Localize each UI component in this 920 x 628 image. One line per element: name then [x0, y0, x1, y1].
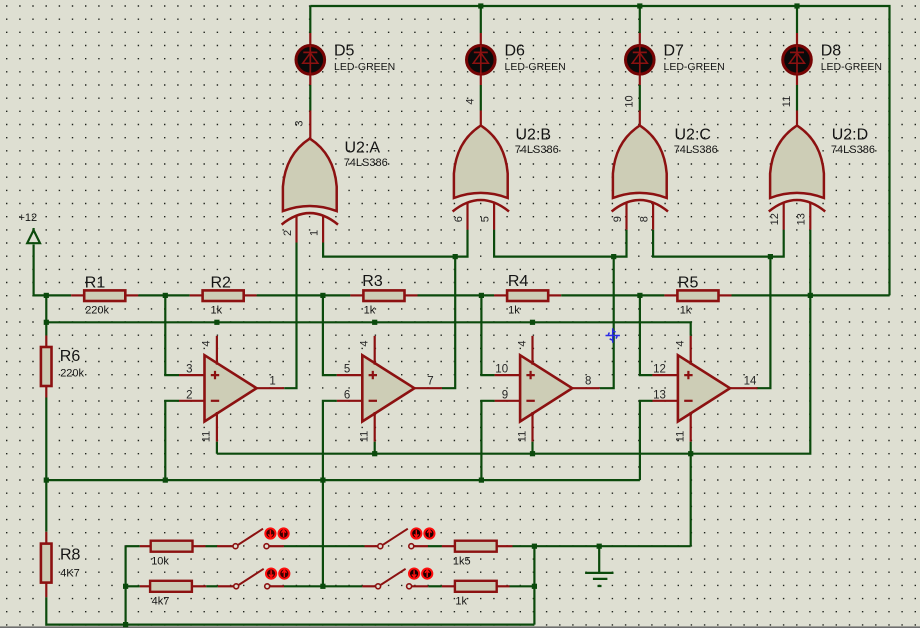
U2:A label — [344, 139, 388, 169]
pin number 9 — [502, 389, 508, 401]
U2:C input stub left (pin 9) — [625, 202, 627, 230]
R4 labels — [508, 273, 529, 317]
pin number 4 — [675, 340, 687, 346]
svg-text:2: 2 — [186, 389, 192, 401]
wire op2 output up — [442, 257, 455, 389]
resistor R1 left stub — [71, 294, 84, 296]
wire U2:D pin13 down — [809, 230, 811, 296]
pin number 5 — [479, 216, 491, 222]
svg-text:R1: R1 — [85, 275, 106, 292]
switch 4 right stub — [412, 585, 429, 587]
pin number 10 (output of U2:C) — [624, 95, 636, 107]
D8 anode stub — [796, 75, 798, 85]
resistor 4k7 left stub — [140, 585, 150, 587]
op1 output stub — [257, 387, 285, 389]
resistor 1k left stub — [442, 585, 455, 587]
svg-text:1: 1 — [308, 230, 320, 236]
junction R2/R3 tap — [320, 293, 325, 298]
resistor 10k left stub — [140, 545, 151, 547]
svg-text:D5: D5 — [334, 42, 355, 59]
svg-text:D8: D8 — [821, 42, 842, 59]
svg-text:U2:D: U2:D — [832, 126, 868, 143]
U2:D input stub right (pin 13) — [809, 202, 811, 230]
svg-text:11: 11 — [781, 96, 793, 107]
junction row2 / op2 column — [320, 584, 325, 589]
wire V+ rail (op-amp pin 4 supply) — [46, 322, 690, 336]
1k label — [455, 596, 467, 608]
wire op4 output up — [756, 257, 770, 389]
D5 cathode stub — [309, 33, 311, 44]
bottom window strip — [0, 626, 920, 628]
wire center column to switch4 — [323, 585, 363, 587]
wire 1k5 to ground rail — [513, 545, 691, 547]
resistor R4 right stub — [548, 294, 561, 296]
wire 4k7 to switch 3 — [206, 585, 218, 587]
switch SW3 (row2 left) — [234, 569, 290, 589]
svg-text:4: 4 — [465, 98, 477, 104]
svg-text:1k: 1k — [680, 305, 692, 317]
wire R1 to R2 — [138, 294, 189, 296]
pin number 4 (output of U2:B) — [465, 98, 477, 104]
svg-text:74LS386: 74LS386 — [344, 157, 388, 169]
pin number 4 — [516, 340, 528, 346]
pin number 1 — [308, 230, 320, 236]
wire op1 - input to feedback line — [165, 401, 179, 480]
svg-text:2: 2 — [282, 230, 294, 236]
wire D7 to gate — [639, 85, 641, 111]
switch 2 left stub — [365, 545, 378, 547]
svg-text:5: 5 — [479, 216, 491, 222]
pin number 6 — [344, 389, 350, 401]
pin number 9 — [612, 216, 624, 222]
op-amp 3 (comparator, output pin 8) — [520, 355, 572, 421]
resistor 4k7 — [150, 581, 192, 592]
resistor R8 top stub — [45, 532, 47, 544]
pin number 2 — [186, 389, 192, 401]
svg-text:12: 12 — [769, 213, 781, 225]
D6 anode stub — [480, 75, 482, 85]
svg-text:11: 11 — [359, 431, 371, 442]
junction top rail / D7 — [637, 3, 642, 8]
svg-text:R4: R4 — [508, 273, 529, 290]
svg-text:4: 4 — [516, 340, 528, 346]
wire switch2 to 1k5 — [428, 545, 442, 547]
op2 - input stub — [337, 400, 363, 402]
resistor R4 left stub — [494, 294, 507, 296]
junction rail / op4 pin11 / ground drop — [688, 451, 693, 456]
op4 pin 4 stub — [690, 336, 692, 365]
resistor 1k5 left stub — [442, 545, 455, 547]
wire U2:A pin1 to U2:B pin6 — [323, 230, 467, 257]
pin number 13 — [796, 213, 808, 225]
D8 cathode stub — [796, 33, 798, 44]
resistor 1k right stub — [497, 585, 510, 587]
resistor R3 left stub — [350, 294, 363, 296]
switch 1 right stub — [269, 545, 284, 547]
svg-text:U2:B: U2:B — [516, 126, 552, 143]
resistor R6 (220k) — [41, 347, 52, 386]
pin number 11 — [516, 431, 528, 442]
wire switch1 to switch2 — [284, 545, 365, 547]
D6 cathode stub — [480, 33, 482, 44]
wire top rail (LED common, down right side to R5) — [310, 6, 889, 295]
D5 label — [334, 42, 395, 73]
U2:D input stub left (pin 12) — [783, 202, 785, 230]
op4 pin 11 stub — [690, 412, 692, 442]
R5 labels — [678, 275, 699, 317]
op3 pin 4 stub — [531, 336, 533, 365]
resistor R4 (1k) — [507, 290, 548, 301]
svg-text:11: 11 — [201, 431, 213, 442]
svg-text:LED-GREEN: LED-GREEN — [821, 61, 882, 73]
wire tap to op4 + input — [640, 295, 653, 375]
wire rail to D7 — [639, 6, 641, 33]
4k7 label — [152, 596, 170, 608]
junction R3/R4 tap — [479, 293, 484, 298]
op1 - input stub — [179, 400, 205, 402]
junction bottom rail / switch column — [123, 622, 128, 627]
resistor R8 bottom stub — [45, 583, 47, 598]
junction right column / row2 — [532, 584, 537, 589]
D6 label — [505, 42, 566, 73]
svg-text:10: 10 — [624, 95, 636, 107]
junction op4-out net — [768, 254, 773, 259]
svg-text:1k: 1k — [455, 596, 467, 608]
U2:B input stub right (pin 5) — [493, 202, 495, 230]
wire U2:B pin5 to U2:C pin9 — [494, 230, 626, 257]
svg-text:5: 5 — [344, 364, 350, 376]
wire R8 to bottom rail — [46, 597, 534, 624]
pin number 11 — [359, 431, 371, 442]
resistor R2 left stub — [190, 294, 203, 296]
svg-text:13: 13 — [796, 213, 808, 225]
switch 2 right stub — [414, 545, 428, 547]
wire ground drop — [690, 454, 692, 547]
pin number 5 — [344, 364, 350, 376]
pin number 1 — [269, 375, 275, 387]
resistor 1k5 — [455, 541, 497, 552]
svg-text:LED-GREEN: LED-GREEN — [664, 61, 725, 73]
junction switch column / row2 — [123, 584, 128, 589]
resistor 1k (row2) — [455, 581, 497, 592]
op1 pin 11 stub — [216, 412, 218, 442]
wire op2 - input down to switch rows — [323, 401, 337, 587]
svg-text:U2:A: U2:A — [345, 139, 381, 156]
wire tap to op2 + input — [323, 295, 337, 375]
wire rail to D6 — [480, 6, 482, 33]
op1 pin 4 stub — [216, 336, 218, 365]
resistor R5 left stub — [664, 294, 677, 296]
svg-text:D6: D6 — [505, 42, 526, 59]
svg-text:+12: +12 — [19, 212, 38, 224]
pin number 10 — [495, 364, 508, 376]
R8 labels — [60, 546, 81, 579]
op4 output stub — [730, 387, 758, 389]
wire op4 - input to feedback line end — [640, 401, 653, 480]
junction row1 / right column — [532, 544, 537, 549]
pin number 4 — [359, 340, 371, 346]
wire D6 to gate — [480, 85, 482, 111]
junction V+ / op1 pin4 — [214, 320, 219, 325]
svg-text:11: 11 — [516, 431, 528, 442]
U2:B input stub left (pin 6) — [466, 202, 468, 230]
svg-text:12: 12 — [653, 364, 666, 376]
wire 10k to switch 1 — [206, 545, 218, 547]
xor gate U2:D (74LS386) — [769, 126, 825, 212]
wire rail to D8 — [796, 6, 798, 33]
svg-text:11: 11 — [675, 431, 687, 442]
wire feedback line — [46, 479, 640, 481]
wire D8 to gate — [796, 85, 798, 111]
svg-text:1k: 1k — [364, 305, 376, 317]
xor gate U2:B (74LS386) — [453, 126, 509, 212]
pin number 12 — [769, 213, 781, 225]
LED D7 — [626, 45, 655, 75]
wire right column — [533, 546, 535, 624]
resistor 1k5 right stub — [497, 545, 513, 547]
op3 output stub — [572, 387, 600, 389]
ground — [585, 546, 613, 586]
junction R5 / U2:D pin13 / ground drop — [808, 293, 813, 298]
svg-text:6: 6 — [344, 389, 350, 401]
svg-text:D7: D7 — [664, 42, 685, 59]
pin number 3 — [186, 364, 192, 376]
wire op1 pin 11 down — [216, 442, 218, 454]
junction +12 / R6 column — [44, 293, 49, 298]
R6 labels — [60, 348, 85, 379]
svg-text:R5: R5 — [678, 275, 699, 292]
U2:D label — [831, 126, 875, 156]
switch SW1 (row1 left) — [233, 528, 289, 548]
gate U2:B output pin stub — [480, 111, 482, 127]
wire R-row to R6 — [45, 295, 47, 335]
xor gate U2:A (74LS386) — [282, 139, 338, 225]
switch 4 left stub — [362, 585, 375, 587]
resistor R3 (1k) — [363, 290, 404, 301]
junction feedback / op1 — [163, 478, 168, 483]
wire R3 to R4 — [418, 294, 495, 296]
switch SW4 (row2 right) — [376, 569, 433, 589]
svg-text:14: 14 — [744, 375, 757, 387]
junction top rail / D8 — [794, 3, 799, 8]
wire row2 left — [126, 585, 140, 587]
svg-text:R2: R2 — [211, 275, 232, 292]
svg-text:R3: R3 — [362, 273, 383, 290]
svg-text:R8: R8 — [60, 546, 81, 563]
svg-text:7: 7 — [427, 375, 433, 387]
op3 pin 11 stub — [531, 412, 533, 442]
pin number 12 — [653, 364, 666, 376]
wire op3 - input to feedback line — [481, 401, 494, 480]
resistor R6 top stub — [45, 336, 47, 348]
op3 + input stub — [495, 374, 520, 376]
svg-text:74LS386: 74LS386 — [674, 144, 718, 156]
svg-text:3: 3 — [294, 120, 306, 126]
D8 label — [821, 42, 882, 73]
pin number 8 — [585, 375, 591, 387]
op1 + input stub — [179, 374, 205, 376]
resistor R8 (4K7) — [41, 544, 52, 583]
svg-text:1k: 1k — [508, 305, 520, 317]
LED D8 — [783, 45, 812, 75]
junction op2-out net — [453, 254, 458, 259]
wire op1 output to U2:A pin 2 — [284, 243, 296, 389]
1k5 label — [453, 555, 471, 567]
junction rail / op3 pin11 — [530, 451, 535, 456]
svg-text:9: 9 — [612, 216, 624, 222]
wire R6 to R8 — [45, 398, 47, 532]
op3 - input stub — [495, 400, 520, 402]
svg-text:6: 6 — [453, 216, 465, 222]
junction feedback / op2 column — [320, 478, 325, 483]
svg-text:1k: 1k — [211, 305, 223, 317]
D5 anode stub — [309, 75, 311, 85]
wire R5 to right rail — [732, 294, 890, 296]
junction rail / op2 pin11 — [372, 451, 377, 456]
resistor R5 (1k) — [677, 290, 718, 301]
pin number 13 — [653, 389, 666, 401]
resistor R2 (1k) — [203, 290, 244, 301]
svg-text:220k: 220k — [60, 368, 84, 380]
U2:C label — [674, 126, 718, 156]
wire U2:C pin8 to U2:D pin12 — [653, 230, 784, 257]
junction R1/R2 tap — [163, 293, 168, 298]
svg-text:R6: R6 — [60, 348, 81, 365]
LED D6 — [467, 45, 496, 75]
wire D5 to gate — [309, 85, 311, 111]
svg-text:U2:C: U2:C — [675, 126, 711, 143]
svg-text:74LS386: 74LS386 — [515, 144, 559, 156]
wire switch3 to center column — [284, 585, 323, 587]
resistor R1 right stub — [125, 294, 138, 296]
svg-text:1k5: 1k5 — [453, 555, 471, 567]
gate U2:A output pin stub — [309, 111, 311, 140]
svg-text:8: 8 — [638, 216, 650, 222]
wire row1 left — [126, 545, 140, 547]
wire op3 output up — [600, 257, 614, 389]
pin number 11 — [675, 431, 687, 442]
junction V+ / op2 pin4 — [372, 320, 377, 325]
pin number 8 — [638, 216, 650, 222]
U2:C input stub right (pin 8) — [652, 202, 654, 230]
D7 label — [664, 42, 725, 73]
wire tap to op1 + input — [165, 295, 179, 375]
svg-text:4: 4 — [675, 340, 687, 346]
svg-text:220k: 220k — [85, 305, 109, 317]
wire R4 to R5 — [561, 294, 664, 296]
svg-text:4K7: 4K7 — [60, 567, 80, 579]
switch SW2 (row1 right) — [378, 528, 435, 548]
resistor R1 (220k) — [84, 290, 125, 301]
svg-text:1: 1 — [269, 375, 275, 387]
junction top rail / D6 — [478, 3, 483, 8]
svg-text:LED-GREEN: LED-GREEN — [505, 61, 566, 73]
wire 1k to right column — [510, 585, 535, 587]
R2 labels — [211, 275, 232, 317]
op2 + input stub — [337, 374, 363, 376]
D7 cathode stub — [639, 33, 641, 44]
pin number 7 — [427, 375, 433, 387]
junction R6-R8 / feedback line — [44, 478, 49, 483]
junction V+ / op3 pin4 — [530, 320, 535, 325]
R3 labels — [362, 273, 383, 317]
switch 3 left stub — [218, 585, 234, 587]
svg-text:74LS386: 74LS386 — [831, 144, 875, 156]
wire op2 pin 11 down — [374, 442, 376, 454]
junction op3-out net — [611, 254, 616, 259]
svg-text:10: 10 — [495, 364, 508, 376]
svg-text:4k7: 4k7 — [152, 596, 170, 608]
svg-text:8: 8 — [585, 375, 591, 387]
wire switch4 to 1k — [428, 585, 442, 587]
U2:A input stub right (pin 1) — [322, 215, 324, 243]
blue origin marker — [606, 328, 620, 342]
op-amp 4 (comparator, output pin 14) — [678, 355, 730, 421]
wire op4 pin 11 down — [690, 442, 692, 454]
pin number 3 (output of U2:A) — [294, 120, 306, 126]
junction feedback / op3 — [479, 478, 484, 483]
wire pin-11 rail to upper right — [217, 295, 810, 453]
U2:B label — [515, 126, 559, 156]
switch 1 left stub — [217, 545, 233, 547]
wire rail to D5 — [309, 6, 311, 33]
op2 pin 11 stub — [374, 412, 376, 442]
gate U2:D output pin stub — [796, 111, 798, 127]
wire op3 pin 11 down — [531, 442, 533, 454]
resistor R5 right stub — [719, 294, 732, 296]
op4 + input stub — [652, 374, 678, 376]
svg-text:10k: 10k — [151, 555, 169, 567]
svg-text:4: 4 — [359, 340, 371, 346]
wire R2 to R3 — [257, 294, 351, 296]
switch 3 right stub — [270, 585, 284, 587]
gate U2:C output pin stub — [639, 111, 641, 127]
resistor 10k right stub — [193, 545, 206, 547]
svg-text:9: 9 — [502, 389, 508, 401]
pin number 2 — [282, 230, 294, 236]
op2 output stub — [414, 387, 442, 389]
LED D5 — [296, 45, 325, 75]
resistor 4k7 right stub — [192, 585, 206, 587]
op2 pin 4 stub — [374, 336, 376, 365]
pin number 4 — [201, 340, 213, 346]
op-amp 1 (comparator, output pin 1) — [205, 355, 257, 421]
D7 anode stub — [639, 75, 641, 85]
pin number 11 — [201, 431, 213, 442]
svg-text:3: 3 — [186, 364, 192, 376]
op-amp 2 (comparator, output pin 7) — [362, 355, 414, 421]
U2:A input stub left (pin 2) — [295, 215, 297, 243]
pin number 6 — [453, 216, 465, 222]
op4 - input stub — [652, 400, 678, 402]
wire switch column row1 — [124, 546, 126, 624]
junction V+ / R6 column — [44, 320, 49, 325]
+12 power symbol — [19, 212, 41, 243]
svg-text:13: 13 — [653, 389, 666, 401]
junction R4/R5 tap — [637, 293, 642, 298]
10k label — [151, 555, 169, 567]
pin number 14 — [744, 375, 757, 387]
resistor R6 bottom stub — [45, 386, 47, 398]
R1 labels — [85, 275, 110, 317]
svg-text:LED-GREEN: LED-GREEN — [334, 61, 395, 73]
svg-text:4: 4 — [201, 340, 213, 346]
xor gate U2:C (74LS386) — [612, 126, 668, 212]
wire tap to op3 + input — [481, 295, 494, 375]
wire +12 to resistor row — [34, 245, 72, 296]
pin number 11 (output of U2:D) — [781, 96, 793, 107]
resistor R3 right stub — [405, 294, 418, 296]
